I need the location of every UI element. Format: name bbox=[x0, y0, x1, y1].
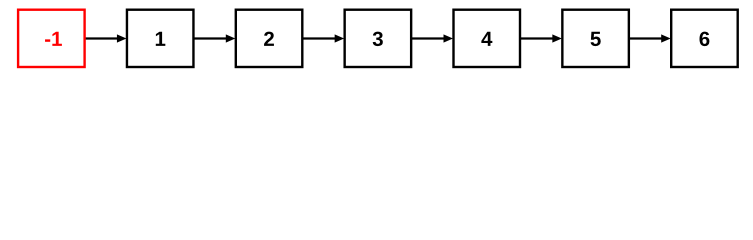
value label "4" bbox=[481, 32, 492, 46]
wire / arrow 4 to 5 bbox=[521, 34, 562, 42]
node 6 bbox=[671, 10, 738, 67]
value label "1" bbox=[156, 32, 166, 46]
box outline of node 5 bbox=[562, 10, 629, 67]
box outline of node -1 bbox=[18, 10, 85, 67]
node 1 bbox=[127, 10, 194, 67]
value label "-1" bbox=[45, 32, 62, 46]
wire / arrow 5 to 6 bbox=[629, 34, 670, 42]
value label "3" bbox=[373, 32, 383, 47]
box outline of node 1 bbox=[127, 10, 194, 67]
box outline of node 2 bbox=[236, 10, 302, 67]
box outline of node 3 bbox=[345, 10, 412, 67]
wire / arrow 2 to 3 bbox=[303, 34, 344, 42]
node 5 bbox=[562, 10, 629, 67]
value label "2" bbox=[264, 32, 274, 46]
box outline of node 6 bbox=[671, 10, 738, 67]
node -1 (red head box) bbox=[18, 10, 85, 67]
node 4 bbox=[454, 10, 521, 67]
wire / arrow -1 to 1 bbox=[85, 34, 126, 42]
wire / arrow 1 to 2 bbox=[194, 34, 235, 42]
value label "6" bbox=[700, 32, 710, 47]
box outline of node 4 bbox=[454, 10, 521, 67]
value label "5" bbox=[591, 32, 601, 46]
node 3 bbox=[345, 10, 412, 67]
wire / arrow 3 to 4 bbox=[412, 34, 453, 42]
node 2 bbox=[236, 10, 302, 67]
